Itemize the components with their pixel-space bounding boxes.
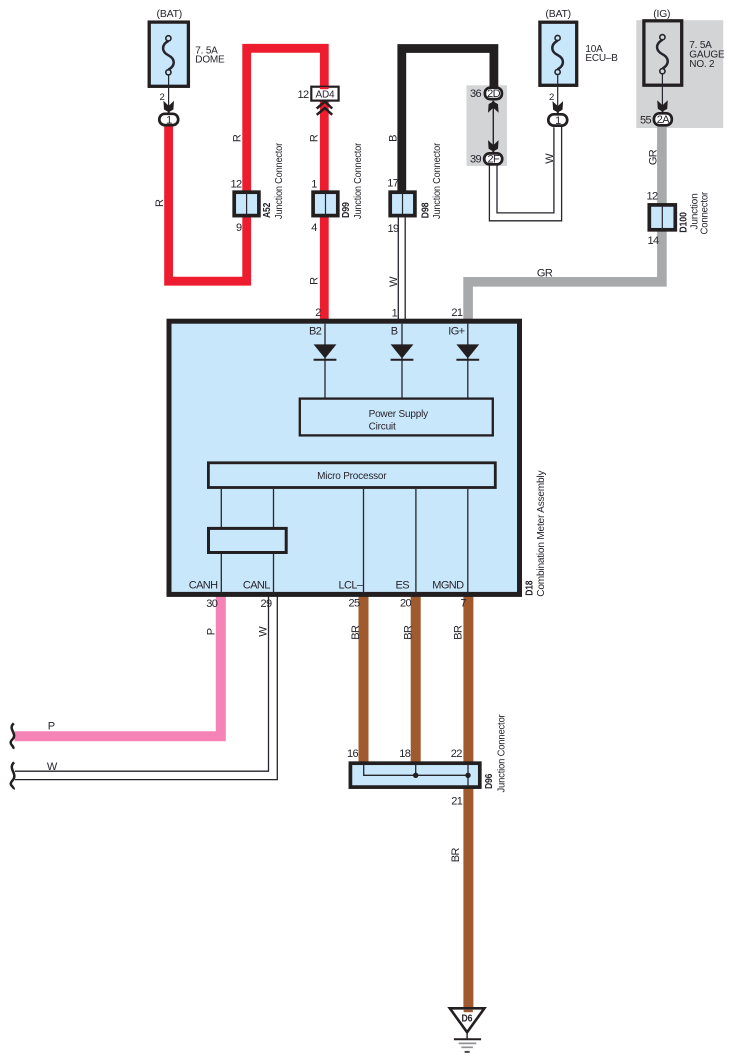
svg-text:P: P bbox=[48, 720, 55, 732]
svg-text:W: W bbox=[47, 761, 58, 773]
svg-text:(IG): (IG) bbox=[653, 9, 670, 20]
svg-text:DOME: DOME bbox=[195, 55, 225, 66]
double arrow between 2D and 2F bbox=[488, 101, 499, 152]
svg-text:36: 36 bbox=[470, 88, 482, 100]
svg-text:16: 16 bbox=[347, 748, 359, 760]
fuse 7.5A DOME bbox=[149, 9, 225, 127]
svg-text:1: 1 bbox=[555, 115, 561, 127]
svg-text:14: 14 bbox=[647, 235, 659, 247]
svg-text:39: 39 bbox=[470, 154, 482, 166]
svg-text:29: 29 bbox=[260, 598, 272, 610]
svg-text:D99: D99 bbox=[341, 202, 352, 218]
svg-text:Micro Processor: Micro Processor bbox=[317, 471, 387, 482]
svg-text:D100: D100 bbox=[679, 212, 690, 233]
wire GR from 2A through D100 to meter pin 21 (gray) bbox=[468, 126, 662, 321]
wire W from meter pin 29 to left break (double line) bbox=[15, 594, 278, 780]
svg-text:D18: D18 bbox=[524, 580, 535, 596]
svg-text:55: 55 bbox=[640, 115, 652, 127]
svg-text:12: 12 bbox=[646, 190, 658, 202]
svg-text:D96: D96 bbox=[484, 773, 495, 789]
svg-text:W: W bbox=[388, 276, 400, 287]
svg-text:D6: D6 bbox=[462, 1013, 473, 1024]
svg-text:BR: BR bbox=[450, 848, 462, 863]
svg-text:Junction Connector: Junction Connector bbox=[497, 714, 508, 793]
internal wire ES bbox=[415, 489, 417, 595]
break squiggle on P wire bbox=[11, 723, 15, 749]
svg-text:1: 1 bbox=[392, 308, 398, 320]
micro processor box bbox=[208, 463, 495, 488]
diode on B2 bbox=[314, 344, 337, 358]
svg-text:Junction Connector: Junction Connector bbox=[432, 142, 443, 219]
svg-text:17: 17 bbox=[387, 178, 399, 190]
svg-text:19: 19 bbox=[387, 223, 399, 235]
svg-text:W: W bbox=[257, 626, 269, 637]
internal wire MGND bbox=[467, 489, 469, 595]
fuse 10A ECU-B bbox=[540, 9, 618, 127]
svg-text:GR: GR bbox=[537, 267, 553, 279]
svg-text:BR: BR bbox=[350, 625, 362, 640]
svg-text:BR: BR bbox=[402, 625, 414, 640]
svg-text:IG+: IG+ bbox=[448, 325, 464, 337]
svg-text:Connector: Connector bbox=[700, 191, 711, 234]
break squiggle on W wire bbox=[11, 762, 15, 789]
svg-text:22: 22 bbox=[451, 748, 463, 760]
svg-text:R: R bbox=[231, 134, 243, 142]
svg-text:ES: ES bbox=[396, 580, 410, 592]
svg-text:Junction Connector: Junction Connector bbox=[353, 142, 364, 219]
svg-text:P: P bbox=[206, 628, 218, 635]
svg-text:4: 4 bbox=[311, 222, 317, 234]
wire R from AD4 down to meter pin 2 (red) bbox=[320, 98, 329, 321]
svg-text:9: 9 bbox=[236, 222, 242, 234]
combination meter assembly D18 box bbox=[169, 321, 520, 594]
internal wire B2 bbox=[324, 324, 326, 398]
wire BR pin20 to D96 (brown) bbox=[411, 594, 421, 763]
svg-text:B: B bbox=[391, 325, 398, 337]
internal wire B bbox=[401, 324, 403, 398]
gray shaded box around IG fuse bbox=[636, 20, 723, 128]
svg-text:1: 1 bbox=[166, 114, 172, 126]
wire BR pin25 to D96 (brown) bbox=[359, 594, 369, 763]
svg-text:2: 2 bbox=[315, 307, 321, 319]
svg-text:NO. 2: NO. 2 bbox=[689, 59, 715, 70]
junction connector D100 bbox=[646, 190, 710, 246]
internal wire LCL- bbox=[363, 489, 365, 595]
svg-text:20: 20 bbox=[400, 598, 412, 610]
connector 2F bbox=[470, 153, 502, 165]
connector 2D bbox=[470, 88, 502, 101]
svg-text:1: 1 bbox=[311, 178, 317, 190]
svg-text:21: 21 bbox=[451, 307, 463, 319]
fuse 7.5A GAUGE NO.2 (IG) bbox=[640, 9, 725, 127]
svg-text:2D: 2D bbox=[487, 88, 501, 100]
internal wire IG+ bbox=[467, 324, 469, 398]
wire W loop from ECU-B oval 1 to 2F (double line) bbox=[489, 126, 561, 221]
svg-text:(BAT): (BAT) bbox=[157, 9, 183, 20]
ground D6 bbox=[450, 1008, 485, 1052]
diode on B bbox=[391, 344, 414, 358]
wire BR pin7 to D96 (brown) bbox=[463, 594, 473, 763]
svg-text:21: 21 bbox=[451, 796, 463, 808]
svg-text:25: 25 bbox=[348, 598, 360, 610]
svg-text:30: 30 bbox=[206, 598, 218, 610]
wire R from DOME fuse through A52 to AD4 (red) bbox=[169, 48, 325, 281]
svg-text:CANH: CANH bbox=[189, 580, 218, 592]
svg-text:CANL: CANL bbox=[243, 580, 270, 592]
svg-text:B2: B2 bbox=[309, 325, 322, 337]
svg-text:R: R bbox=[309, 277, 321, 285]
svg-text:LCL–: LCL– bbox=[338, 580, 363, 592]
wire W from D98 down to meter pin 1 (double line) bbox=[398, 218, 405, 320]
junction connector D96 bbox=[347, 714, 508, 808]
svg-text:Power Supply: Power Supply bbox=[369, 409, 428, 420]
svg-text:Circuit: Circuit bbox=[369, 422, 396, 433]
svg-text:GR: GR bbox=[648, 149, 660, 165]
gray shaded box around 2D/2F connectors bbox=[467, 85, 508, 166]
svg-text:AD4: AD4 bbox=[315, 90, 334, 101]
svg-text:R: R bbox=[154, 199, 166, 207]
svg-text:12: 12 bbox=[230, 178, 242, 190]
svg-text:W: W bbox=[544, 153, 556, 164]
wire P from meter pin 30 to left break (pink) bbox=[15, 594, 221, 736]
svg-text:R: R bbox=[309, 134, 321, 142]
junction connector D98 bbox=[387, 142, 443, 235]
svg-text:(BAT): (BAT) bbox=[545, 9, 571, 20]
svg-text:BR: BR bbox=[453, 625, 465, 640]
CAN driver box bbox=[209, 528, 287, 552]
svg-text:Junction Connector: Junction Connector bbox=[274, 142, 285, 219]
svg-text:2F: 2F bbox=[487, 154, 500, 166]
wire BR from D96 pin 21 to ground D6 (brown) bbox=[463, 788, 473, 1008]
svg-text:MGND: MGND bbox=[432, 580, 464, 592]
svg-text:D98: D98 bbox=[420, 202, 431, 218]
wire B from D98 up to 2D (black) bbox=[402, 49, 494, 193]
svg-text:B: B bbox=[388, 135, 400, 142]
junction connector A52 bbox=[230, 142, 285, 234]
svg-text:A52: A52 bbox=[262, 202, 273, 218]
svg-text:18: 18 bbox=[399, 748, 411, 760]
svg-text:12: 12 bbox=[297, 89, 309, 101]
diode on IG+ bbox=[456, 344, 479, 358]
internal wire CANH bbox=[220, 489, 222, 595]
internal wire CANL bbox=[273, 489, 275, 595]
svg-text:2: 2 bbox=[549, 92, 554, 103]
svg-text:Combination Meter Assembly: Combination Meter Assembly bbox=[536, 471, 547, 597]
connector AD4 bbox=[297, 87, 338, 115]
svg-text:ECU–B: ECU–B bbox=[585, 53, 618, 64]
junction connector D99 bbox=[311, 142, 364, 234]
svg-text:7: 7 bbox=[460, 598, 466, 610]
power supply circuit box bbox=[300, 399, 493, 436]
svg-text:2A: 2A bbox=[657, 114, 671, 126]
